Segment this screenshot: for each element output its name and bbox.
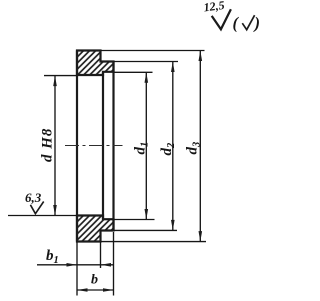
dimension b1 <box>37 248 114 267</box>
extension line flange OD top (d3) <box>101 50 205 52</box>
svg-text:): ) <box>253 14 261 33</box>
centerline (axis) <box>65 145 123 147</box>
svg-text:d2: d2 <box>159 142 177 156</box>
dimension b <box>77 273 114 292</box>
roughness 12,5 general mark <box>203 0 231 29</box>
roughness (check) in parentheses <box>233 14 261 33</box>
extension line recess bottom (d1) <box>104 219 155 221</box>
shoulder edge line (bore/recess step seen through bore) <box>102 72 104 219</box>
svg-text:(: ( <box>233 14 240 33</box>
dimension d H8 <box>40 76 57 216</box>
svg-text:d3: d3 <box>185 142 203 155</box>
extension line flange OD bottom (d3) <box>101 241 206 243</box>
extension line recess top (d1) <box>114 71 153 73</box>
svg-text:12,5: 12,5 <box>203 0 226 14</box>
svg-text:6,3: 6,3 <box>25 190 42 205</box>
top flange cross-section (hatched) <box>77 51 114 76</box>
extension line bore top (d H8) <box>44 75 77 77</box>
extension line step OD top (d2) <box>114 61 178 63</box>
svg-text:d H8: d H8 <box>40 128 56 162</box>
roughness 6,3 mark on bore <box>25 190 44 214</box>
extension line b1 (flange right face extended down) <box>100 242 102 268</box>
svg-text:b: b <box>91 273 98 288</box>
svg-text:b1: b1 <box>46 248 59 266</box>
right face edge line <box>112 62 114 231</box>
dimension d1 <box>133 72 151 219</box>
extension line bore bottom (d H8 / roughness 6,3 shelf) <box>8 215 77 217</box>
dimension d2 <box>159 62 177 231</box>
extension line left face extended down for b1 and b <box>76 242 78 296</box>
svg-text:d1: d1 <box>133 142 151 155</box>
extension line b (right face extended down) <box>113 232 115 296</box>
left face edge line <box>76 51 78 242</box>
extension line step OD bottom (d2) <box>114 229 177 231</box>
dimension d3 <box>185 51 203 242</box>
bottom flange cross-section (hatched) <box>77 216 114 242</box>
